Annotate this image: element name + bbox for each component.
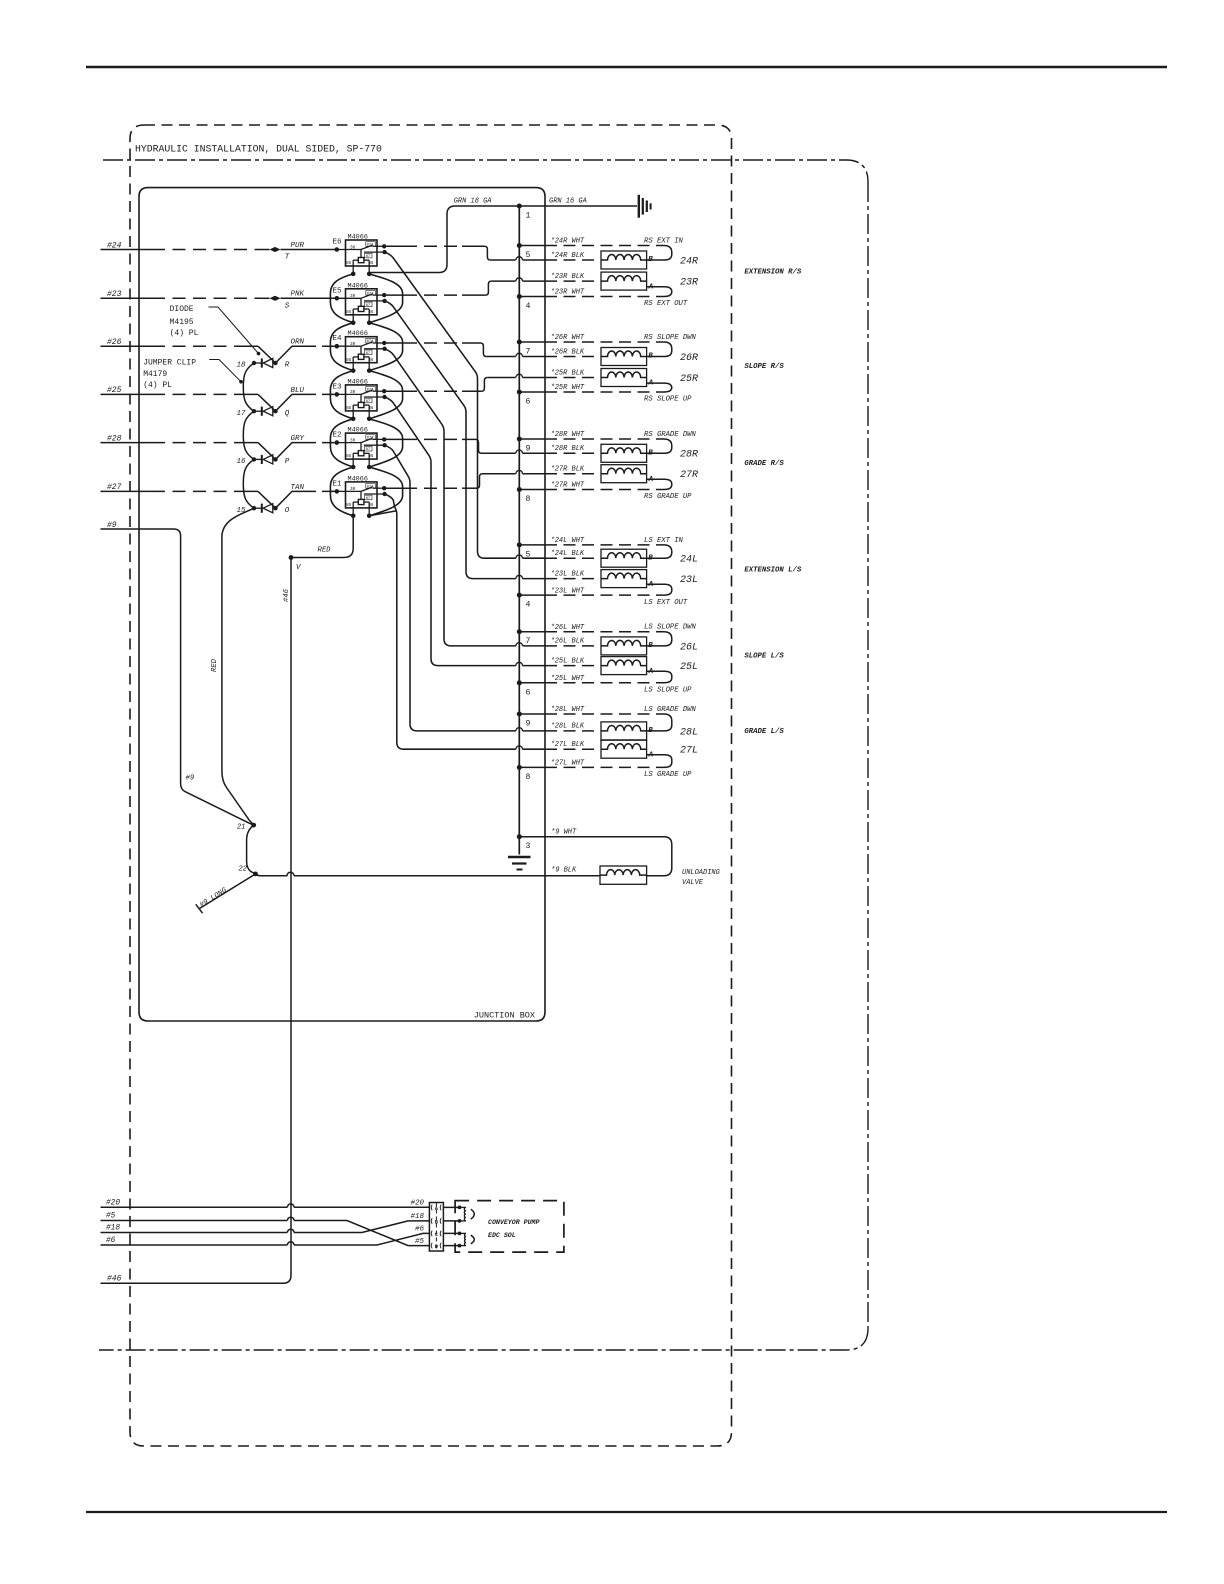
svg-text:#23: #23 [107, 290, 122, 299]
terminal V [289, 555, 294, 560]
svg-text:85: 85 [346, 504, 352, 508]
diode 18 [252, 358, 278, 367]
svg-text:87A: 87A [367, 292, 375, 296]
svg-text:4: 4 [526, 601, 531, 610]
solenoid 24R [601, 251, 647, 269]
svg-text:16: 16 [236, 458, 246, 466]
svg-text:M4066: M4066 [348, 475, 368, 483]
svg-text:M4066: M4066 [348, 427, 368, 435]
svg-text:17: 17 [236, 410, 246, 418]
wire RS BLK row E6 [490, 259, 515, 261]
bus terminal 6 junction [517, 390, 522, 395]
svg-text:A: A [648, 476, 654, 484]
wire relay E1 87 to solenoid row [385, 494, 516, 749]
svg-text:9: 9 [526, 720, 531, 729]
svg-text:*25L BLK: *25L BLK [551, 657, 585, 665]
page bottom border line [86, 1511, 1167, 1513]
svg-text:23L: 23L [680, 575, 698, 586]
solenoid 25R [601, 369, 647, 387]
wire PUR segment to relay [281, 249, 337, 251]
wire RS BLK row E5 [491, 280, 515, 282]
callout leader line to jumper clip [209, 360, 241, 382]
svg-text:87: 87 [366, 352, 371, 356]
chain arc E3 85 to E2 [330, 419, 353, 467]
svg-text:*9 BLK: *9 BLK [551, 866, 577, 874]
svg-text:87A: 87A [367, 388, 375, 392]
relay E3 M4066 [331, 385, 387, 421]
solenoid 26L [601, 637, 647, 655]
svg-text:1: 1 [526, 212, 531, 221]
svg-text:85: 85 [346, 359, 352, 363]
svg-text:*25R BLK: *25R BLK [551, 369, 585, 377]
svg-text:#9: #9 [107, 521, 117, 530]
svg-text:GRN 16 GA: GRN 16 GA [549, 198, 587, 206]
svg-text:*23L WHT: *23L WHT [551, 587, 585, 595]
svg-text:RS GRADE DWN: RS GRADE DWN [644, 431, 696, 439]
wire *28R WHT (terminal to pin B) [519, 438, 545, 440]
svg-text:*26L BLK: *26L BLK [551, 638, 585, 646]
wire E1 86 to cascade [369, 511, 397, 516]
wire relay E4 87 to solenoid row [385, 349, 516, 646]
svg-text:*27R WHT: *27R WHT [551, 482, 585, 490]
svg-text:30: 30 [350, 438, 356, 443]
svg-text:26R: 26R [680, 353, 698, 364]
svg-text:E6: E6 [332, 239, 342, 247]
svg-text:LS SLOPE UP: LS SLOPE UP [644, 687, 692, 695]
wire BLU segment to relay [304, 393, 337, 395]
svg-text:#46: #46 [107, 1275, 122, 1284]
svg-text:*9 WHT: *9 WHT [551, 828, 577, 836]
wire relay E5 87A row [384, 294, 404, 296]
svg-text:E5: E5 [332, 287, 342, 295]
svg-text:86: 86 [368, 359, 374, 363]
svg-text:*23L BLK: *23L BLK [551, 570, 585, 578]
svg-text:#20: #20 [106, 1199, 120, 1207]
svg-text:*25L WHT: *25L WHT [551, 675, 585, 683]
wire *9 BLK (node 22 to unloading valve) [256, 874, 288, 876]
wire relay E6 87 to solenoid row [385, 252, 516, 558]
svg-text:*26R BLK: *26R BLK [551, 348, 585, 356]
svg-text:GRADE R/S: GRADE R/S [744, 460, 784, 468]
svg-text:*24L WHT: *24L WHT [551, 537, 585, 545]
svg-text:P: P [285, 458, 290, 466]
svg-text:M4066: M4066 [348, 234, 368, 242]
relay E1 M4066 [331, 482, 387, 518]
svg-text:9: 9 [526, 445, 531, 454]
chain arc E3 86 to E2 [369, 419, 402, 467]
splice on wire #23 [270, 296, 281, 301]
bus terminal 9 junction [517, 712, 522, 717]
svg-text:*23R BLK: *23R BLK [551, 273, 585, 281]
solenoid 26R [601, 348, 647, 366]
solenoid 27R [601, 465, 647, 483]
svg-text:87A: 87A [367, 485, 375, 489]
wire relay E3 87 to solenoid row [385, 397, 516, 666]
wire RS BLK row E2 [482, 452, 516, 454]
svg-text:TAN: TAN [291, 484, 305, 492]
svg-text:B: B [648, 727, 653, 735]
junction box outline [139, 188, 545, 1021]
page top border line [86, 66, 1167, 69]
chain arc E2 86 to E1 [369, 467, 402, 516]
svg-text:8: 8 [526, 773, 531, 782]
svg-text:7: 7 [526, 348, 531, 357]
svg-text:30: 30 [350, 294, 356, 299]
svg-text:RS EXT IN: RS EXT IN [644, 238, 684, 246]
svg-text:#24: #24 [107, 241, 122, 250]
svg-text:*24R BLK: *24R BLK [551, 252, 585, 260]
wire RS BLK row E4 [486, 356, 515, 358]
svg-text:A: A [648, 380, 654, 388]
wire *26L WHT (terminal to pin B) [519, 631, 545, 633]
bus terminal 9 junction [517, 437, 522, 442]
dash-dot boundary bottom line [99, 1328, 868, 1350]
svg-text:#46: #46 [283, 588, 291, 602]
svg-text:M4066: M4066 [348, 378, 368, 386]
jumper clip chain arc 16-15 [243, 459, 254, 508]
svg-text:86: 86 [368, 262, 374, 266]
chain arc E2 85 to E1 [330, 467, 353, 516]
wire #27 input row [101, 490, 153, 492]
wire *23R WHT (terminal to pin A) [519, 296, 545, 298]
dash-dot boundary right line [867, 182, 869, 1328]
unloading valve coil [600, 866, 647, 884]
svg-text:#5: #5 [106, 1213, 116, 1221]
wire *24L WHT (terminal to pin B) [519, 544, 545, 546]
svg-text:JUNCTION BOX: JUNCTION BOX [474, 1011, 535, 1021]
svg-text:S: S [285, 302, 290, 310]
svg-text:85: 85 [346, 455, 352, 459]
svg-text:*25R WHT: *25R WHT [551, 384, 585, 392]
wire relay E2 87A row [384, 438, 404, 440]
svg-text:86: 86 [368, 455, 374, 459]
svg-text:ORN: ORN [291, 339, 305, 347]
svg-text:RS GRADE UP: RS GRADE UP [644, 493, 692, 501]
wire *25L WHT (terminal to pin A) [519, 682, 545, 684]
svg-text:A: A [648, 668, 654, 676]
svg-text:87: 87 [366, 448, 371, 452]
bus terminal 7 junction [517, 629, 522, 634]
svg-text:R: R [285, 362, 290, 370]
svg-text:LS GRADE UP: LS GRADE UP [644, 771, 692, 779]
svg-text:GRADE L/S: GRADE L/S [744, 728, 784, 736]
svg-text:*24L BLK: *24L BLK [551, 550, 585, 558]
dash-dot boundary top line [103, 160, 868, 182]
svg-text:8: 8 [526, 495, 531, 504]
svg-text:28R: 28R [680, 450, 698, 461]
solenoid 23R [601, 272, 647, 290]
svg-text:E3: E3 [332, 383, 342, 391]
svg-text:#28: #28 [107, 434, 122, 443]
chain arc E4 85 to E3 [330, 371, 353, 419]
svg-text:27R: 27R [680, 470, 698, 481]
svg-text:VALVE: VALVE [682, 879, 704, 887]
bus terminal 1 junction [517, 204, 522, 209]
svg-text:*27L BLK: *27L BLK [551, 741, 585, 749]
wire GRN 16 GA (bus 1 to chassis ground) [519, 205, 637, 207]
svg-text:86: 86 [368, 311, 374, 315]
bus terminal 6 junction [517, 680, 522, 685]
relay E5 M4066 [331, 289, 387, 325]
wire #6 row [101, 1244, 288, 1246]
svg-text:E1: E1 [332, 480, 342, 488]
earth ground symbol at bus bottom [508, 856, 531, 858]
svg-text:BLU: BLU [291, 387, 305, 395]
svg-text:E2: E2 [332, 432, 341, 440]
svg-text:27L: 27L [680, 746, 698, 757]
wire relay E2 87 to solenoid row [385, 445, 516, 731]
svg-text:A: A [648, 283, 654, 291]
svg-text:M4066: M4066 [348, 282, 368, 290]
svg-text:#9: #9 [186, 775, 195, 783]
svg-text:30: 30 [350, 487, 356, 492]
svg-text:B: B [648, 450, 653, 458]
svg-text:B: B [648, 554, 653, 562]
wire relay E1 87A row [384, 487, 404, 489]
bus terminal 4 junction [517, 294, 522, 299]
svg-text:30: 30 [350, 342, 356, 347]
wire GRY segment to relay [304, 442, 337, 444]
svg-text:3: 3 [526, 842, 531, 851]
wire RS BLK row E3 [487, 377, 515, 379]
svg-text:87: 87 [366, 255, 371, 259]
svg-text:87: 87 [366, 400, 371, 404]
svg-text:6: 6 [526, 398, 531, 407]
svg-text:5: 5 [526, 251, 531, 260]
solenoid 28L [601, 722, 647, 740]
wire RED (V to relay E1 coil) [291, 516, 353, 558]
svg-text:CONVEYOR PUMP: CONVEYOR PUMP [488, 1219, 539, 1226]
svg-text:24R: 24R [680, 256, 698, 267]
relay E2 M4066 [331, 433, 387, 469]
wire #18 row [101, 1232, 288, 1234]
svg-text:85: 85 [346, 262, 352, 266]
svg-text:7: 7 [526, 637, 531, 646]
bus terminal 8 junction [517, 765, 522, 770]
svg-text:LS EXT IN: LS EXT IN [644, 537, 684, 545]
solenoid 24L [601, 549, 647, 567]
svg-text:*26R WHT: *26R WHT [551, 334, 585, 342]
diode 17 [252, 407, 278, 416]
bus terminal 8 junction [517, 487, 522, 492]
diode 15 [252, 504, 278, 513]
solenoid 25L [601, 657, 647, 675]
bus terminal 4 junction [517, 593, 522, 598]
svg-text:23R: 23R [680, 278, 698, 289]
svg-text:18: 18 [236, 362, 246, 370]
wire *28L WHT (terminal to pin B) [519, 713, 545, 715]
svg-text:*28R BLK: *28R BLK [551, 445, 585, 453]
svg-text:GRN 18 GA: GRN 18 GA [454, 198, 492, 206]
svg-text:87: 87 [366, 304, 371, 308]
relay E4 M4066 [331, 337, 387, 373]
svg-text:RED: RED [211, 658, 219, 672]
wire #28 input row [101, 442, 153, 444]
wire #25 input row [101, 393, 153, 395]
hydraulic installation dashed boundary box [130, 125, 732, 1446]
wire *26R WHT (terminal to pin B) [519, 341, 545, 343]
svg-text:HYDRAULIC INSTALLATION, DUAL S: HYDRAULIC INSTALLATION, DUAL SIDED, SP-7… [135, 144, 382, 155]
svg-text:(4) PL: (4) PL [143, 381, 172, 390]
chassis ground symbol [638, 195, 640, 218]
svg-text:*26L WHT: *26L WHT [551, 624, 585, 632]
svg-text:O: O [285, 507, 290, 515]
wire #20 row [101, 1206, 288, 1208]
chain arc E5 86 to E4 [369, 323, 402, 371]
bus terminal 7 junction [517, 340, 522, 345]
svg-text:(4) PL: (4) PL [170, 329, 199, 338]
svg-text:*28R WHT: *28R WHT [551, 431, 585, 439]
svg-text:*27L WHT: *27L WHT [551, 760, 585, 768]
wire #9 (left entry to node 21) [101, 529, 254, 825]
svg-text:A: A [648, 581, 654, 589]
terminal bus vertical line [518, 206, 520, 855]
wire *23L WHT (terminal to pin A) [519, 594, 545, 596]
wire #24 input row [101, 249, 153, 251]
svg-text:DIODE: DIODE [170, 305, 194, 314]
svg-text:GRY: GRY [291, 435, 305, 443]
svg-text:RS EXT OUT: RS EXT OUT [644, 300, 688, 308]
bus terminal 5 junction [517, 243, 522, 248]
wire ORN segment to relay [304, 345, 337, 347]
wire relay E3 87A row [384, 390, 404, 392]
wire relay E4 87A row [384, 342, 404, 344]
svg-text:PUR: PUR [291, 242, 305, 250]
node 22 [253, 872, 258, 877]
svg-text:LS EXT OUT: LS EXT OUT [644, 599, 688, 607]
svg-text:RED: RED [318, 547, 332, 555]
svg-text:JUMPER CLIP: JUMPER CLIP [143, 358, 196, 367]
svg-text:E4: E4 [332, 335, 342, 343]
svg-text:Q: Q [285, 410, 290, 418]
svg-text:#6: #6 [106, 1237, 116, 1245]
svg-text:#18: #18 [106, 1225, 120, 1233]
svg-text:#25: #25 [107, 386, 122, 395]
chain arc E6 85 to E5 [330, 274, 353, 323]
svg-text:87A: 87A [367, 244, 375, 248]
svg-text:EDC SOL: EDC SOL [488, 1232, 516, 1239]
wire RED (diode 15 to node 21) [222, 508, 254, 825]
wire node 21 to node 22 [247, 825, 256, 874]
svg-text:87A: 87A [367, 340, 375, 344]
solenoid 27L [601, 740, 647, 758]
svg-text:4: 4 [526, 302, 531, 311]
wire relay E6 87A row [384, 245, 404, 247]
chain arc E4 86 to E3 [369, 371, 402, 419]
svg-text:26L: 26L [680, 642, 698, 653]
svg-text:*23R WHT: *23R WHT [551, 289, 585, 297]
svg-text:EXTENSION R/S: EXTENSION R/S [744, 269, 802, 277]
jumper clip chain arc 17-16 [243, 411, 254, 459]
svg-text:*24R WHT: *24R WHT [551, 238, 585, 246]
EDC solenoid coil [443, 1206, 459, 1208]
svg-text:22: 22 [238, 866, 247, 874]
solenoid 28R [601, 444, 647, 462]
svg-text:87A: 87A [367, 437, 375, 441]
svg-text:EXTENSION L/S: EXTENSION L/S [744, 567, 802, 575]
svg-text:B: B [648, 256, 653, 264]
wire TAN segment to relay [304, 490, 337, 492]
conveyor pump EDC sol box [455, 1201, 564, 1253]
svg-text:#18: #18 [410, 1213, 424, 1221]
wire #46 (bottom entry up to terminal V) [101, 558, 292, 1284]
svg-text:SLOPE R/S: SLOPE R/S [744, 363, 784, 371]
wire #9 LONG stub [200, 874, 256, 909]
svg-text:6: 6 [526, 688, 531, 697]
svg-text:#26: #26 [107, 338, 122, 347]
svg-text:*27R BLK: *27R BLK [551, 466, 585, 474]
svg-text:*28L BLK: *28L BLK [551, 723, 585, 731]
diode 16 [252, 455, 278, 464]
wire *25R WHT (terminal to pin A) [519, 391, 545, 393]
relay E6 M4066 [335, 240, 387, 276]
svg-text:LS GRADE DWN: LS GRADE DWN [644, 706, 696, 714]
solenoid 23L [601, 570, 647, 588]
svg-text:85: 85 [346, 407, 352, 411]
svg-text:M4066: M4066 [348, 330, 368, 338]
wire *27R WHT (terminal to pin A) [519, 489, 545, 491]
wire dip to diode 18 [258, 346, 304, 363]
svg-text:86: 86 [368, 504, 374, 508]
bus terminal 3 junction [517, 834, 522, 839]
wire #26 input row [101, 345, 153, 347]
svg-text:25L: 25L [680, 662, 698, 673]
svg-text:85: 85 [346, 311, 352, 315]
svg-text:B: B [648, 353, 653, 361]
jumper clip chain arc 18-17 [243, 363, 254, 411]
chain arc E5 85 to E4 [330, 323, 353, 371]
wire *27L WHT (terminal to pin A) [519, 766, 545, 768]
svg-text:SLOPE L/S: SLOPE L/S [744, 653, 784, 661]
svg-text:30: 30 [350, 245, 356, 250]
svg-text:B: B [648, 642, 653, 650]
svg-text:RS SLOPE UP: RS SLOPE UP [644, 396, 692, 404]
svg-text:#27: #27 [107, 483, 122, 492]
EDC solenoid coil [443, 1232, 459, 1234]
chain arc E6 86 to E5 [369, 274, 402, 323]
svg-text:30: 30 [350, 390, 356, 395]
svg-text:PNK: PNK [291, 291, 305, 299]
svg-text:A: A [648, 751, 654, 759]
svg-text:#20: #20 [410, 1200, 424, 1208]
wire #5 row [101, 1220, 288, 1222]
wire *9 WHT (terminal 3 to unloading valve) [519, 837, 672, 876]
node 21 [251, 823, 256, 828]
svg-text:87: 87 [366, 497, 371, 501]
connector block [429, 1203, 443, 1252]
svg-text:M4179: M4179 [143, 370, 167, 379]
bus terminal 5 junction [517, 542, 522, 547]
wire GRN 18 GA (bus 1 to relay chain) [371, 206, 520, 273]
splice on wire #24 [270, 247, 281, 252]
svg-text:25R: 25R [680, 374, 698, 385]
svg-text:21: 21 [237, 823, 246, 831]
svg-text:28L: 28L [680, 727, 698, 738]
svg-text:RS SLOPE DWN: RS SLOPE DWN [644, 334, 696, 342]
svg-text:UNLOADING: UNLOADING [682, 869, 721, 877]
svg-text:24L: 24L [680, 555, 698, 566]
wire dip to diode 17 [258, 394, 304, 411]
wire dip to diode 16 [258, 443, 304, 460]
wire dip to diode 15 [258, 491, 304, 508]
wire RS BLK row E1 [483, 473, 516, 475]
callout leader line to diode [209, 307, 259, 354]
svg-text:LS SLOPE DWN: LS SLOPE DWN [644, 624, 696, 632]
wire *24R WHT (terminal to pin B) [519, 245, 545, 247]
wire PNK segment to relay [281, 297, 337, 299]
svg-text:86: 86 [368, 407, 374, 411]
svg-text:*28L WHT: *28L WHT [551, 706, 585, 714]
